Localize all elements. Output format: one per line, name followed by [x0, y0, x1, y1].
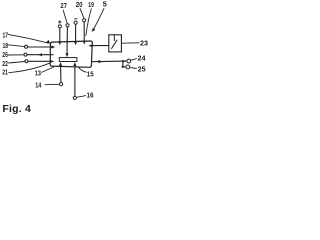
leader 22 to ring	[8, 62, 25, 64]
arrowhead wire 22	[50, 60, 54, 63]
wire 22 into box	[28, 60, 51, 62]
leader 5	[94, 8, 105, 29]
leader 21	[8, 63, 50, 73]
svg-text:16: 16	[87, 90, 94, 99]
arrowhead wire +	[58, 41, 61, 45]
arrowhead wire 27 at slot	[65, 53, 68, 57]
arrowhead wire 16	[73, 62, 76, 66]
arrowhead wire 26 pointing left	[38, 53, 42, 56]
ring terminal 24	[127, 59, 131, 63]
junction dot 25	[122, 66, 124, 68]
dash to label 25	[130, 67, 137, 70]
arrowhead output wire	[98, 60, 102, 63]
svg-text:24: 24	[138, 54, 146, 63]
terminal + (supply plus)	[58, 25, 61, 28]
wire 26 out of box	[27, 54, 54, 56]
svg-text:18: 18	[3, 41, 9, 50]
switch stub	[113, 35, 115, 41]
leader 18 to ring	[8, 45, 25, 47]
ring terminal 25	[126, 65, 130, 69]
terminal - (supply minus)	[74, 21, 77, 24]
wire from 27 down to slot	[66, 27, 68, 55]
wire 18 into box	[28, 46, 53, 48]
ring terminal 16	[73, 96, 76, 99]
leader 26 to ring	[8, 54, 24, 56]
terminal 20	[83, 19, 86, 22]
terminal 27	[66, 24, 69, 27]
dash to label 23	[122, 42, 140, 44]
leader 20	[80, 8, 84, 18]
leader 15	[78, 67, 86, 72]
leader 14 to ring	[45, 83, 60, 85]
junction dot 24	[122, 60, 124, 62]
svg-text:Fig. 4: Fig. 4	[2, 103, 31, 115]
arrowhead wire 20	[83, 41, 86, 45]
wire from 14 ring up into box	[60, 63, 62, 82]
arrowhead leader 5	[92, 28, 96, 32]
svg-text:17: 17	[3, 30, 9, 39]
leader 19	[86, 8, 92, 35]
wire from 20 into box	[83, 22, 85, 42]
svg-text:14: 14	[35, 81, 41, 90]
switch blade	[111, 40, 117, 49]
ring on 18 wire	[25, 45, 28, 48]
svg-text:13: 13	[35, 68, 41, 77]
ring on 26 wire	[24, 53, 27, 56]
branch wire down to 25	[123, 61, 126, 67]
leader 13	[41, 67, 54, 73]
wire from + into box	[59, 28, 61, 43]
svg-text:23: 23	[140, 39, 148, 48]
arrowhead wire 14	[59, 62, 62, 66]
arrowhead wire 23	[88, 44, 92, 47]
wire from box down to 16 ring	[74, 63, 76, 96]
svg-text:20: 20	[76, 0, 83, 9]
ring terminal 14	[60, 83, 63, 86]
arrowhead leader 17	[46, 40, 50, 44]
wire from switch 23 into box	[91, 45, 109, 47]
wire from - into box	[75, 24, 77, 42]
dash to label 24	[131, 59, 137, 61]
card slot 13 inside box	[59, 58, 77, 62]
switch box 23	[109, 35, 122, 52]
svg-text:19: 19	[88, 0, 94, 9]
svg-text:27: 27	[61, 1, 67, 10]
svg-text:21: 21	[2, 68, 8, 77]
leader 16	[77, 96, 86, 98]
svg-text:25: 25	[138, 64, 146, 73]
svg-text:5: 5	[103, 0, 107, 9]
leader 17	[8, 34, 49, 43]
control unit box 5	[50, 41, 92, 67]
output wire from box to 24	[92, 60, 127, 63]
leader 27	[63, 10, 67, 24]
arrowhead wire -	[74, 41, 77, 45]
ring on 22 wire	[25, 60, 28, 63]
arrowhead wire 18	[51, 46, 55, 49]
svg-text:15: 15	[87, 70, 94, 79]
svg-text:26: 26	[2, 50, 8, 59]
